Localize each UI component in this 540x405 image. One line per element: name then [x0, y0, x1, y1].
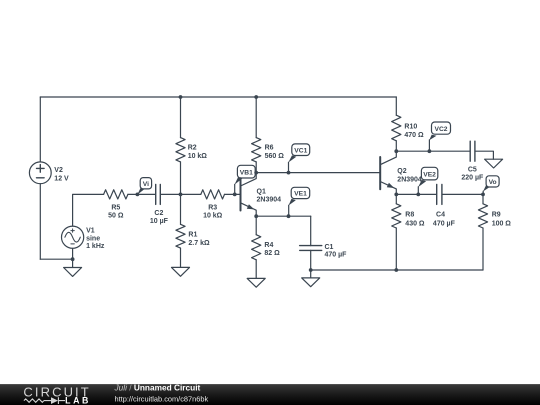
wire R8 bottom lead — [395, 228, 397, 270]
probe VE2 — [418, 167, 438, 194]
node Q2 emitter junction — [394, 193, 398, 197]
node VC2 junction — [428, 149, 432, 153]
node R2 top — [179, 95, 183, 99]
transistor Q2 — [380, 151, 396, 194]
logo resistor-diode art — [24, 397, 65, 404]
label Q1 2N3904 — [257, 189, 282, 204]
node VE1 junction — [287, 214, 291, 218]
wire C5 right to ground — [476, 151, 494, 159]
transistor Q1 — [241, 173, 257, 217]
node Q1 collector junction — [254, 171, 258, 175]
wire C1 bottom lead — [310, 250, 312, 270]
label Q2 2N3904 — [397, 168, 422, 184]
label R10 470 ohm — [404, 124, 424, 139]
wire top rail — [40, 96, 396, 98]
ground under V1 — [64, 259, 82, 276]
wire bottom rail — [311, 269, 483, 271]
node VB1 junction — [233, 193, 237, 197]
label R4 82 ohm — [264, 242, 280, 257]
node VE2 junction — [416, 193, 420, 197]
wire C2 right to junction — [161, 193, 201, 195]
wire left rail lower — [39, 184, 41, 260]
capacitor C1 — [300, 246, 322, 251]
label R1 2.7 kohm — [188, 231, 210, 247]
label R5 50 ohm — [108, 204, 124, 219]
wire V1 bottom lead — [72, 248, 74, 259]
resistor R8 — [392, 204, 401, 228]
wire R9 top lead — [482, 194, 484, 203]
capacitor C5 — [470, 141, 475, 161]
ground under R4 — [247, 260, 265, 287]
node Q2 collector junction — [394, 149, 398, 153]
capacitor C4 — [437, 184, 442, 204]
resistor R2 — [176, 138, 185, 162]
probe VB1 — [235, 165, 256, 194]
wire R10 top lead — [395, 97, 397, 115]
node R8 bottom junction — [394, 268, 398, 272]
wire R2 bottom lead — [180, 162, 182, 195]
capacitor C2 — [156, 184, 161, 204]
label V1 sine 1 kHz — [86, 228, 105, 251]
voltage source V1 sine — [62, 226, 84, 248]
label V2 12 V — [54, 167, 69, 182]
svg-text:LAB: LAB — [65, 396, 91, 405]
wire R6 bottom lead — [255, 162, 257, 173]
wire bottom left to V1 — [40, 258, 72, 260]
label R3 10 kohm — [203, 204, 223, 219]
resistor R4 — [252, 235, 261, 260]
svg-text:Juli / Unnamed Circuit: Juli / Unnamed Circuit — [114, 382, 201, 392]
wire R9 bottom lead — [482, 228, 484, 270]
ground under R1 — [172, 248, 190, 276]
ground right of C5 — [485, 159, 503, 168]
probe Vi — [137, 178, 151, 195]
wire Q1 collector row to Q2 base — [256, 172, 380, 174]
label C2 10 uF — [150, 210, 169, 225]
footer bar — [0, 384, 540, 405]
label R2 10 kohm — [188, 144, 208, 160]
wire R4 top lead — [255, 216, 257, 235]
wire C1 top lead — [310, 216, 312, 245]
voltage source V2 — [29, 162, 51, 184]
resistor R5 — [104, 190, 128, 199]
node Vi junction — [136, 193, 140, 197]
resistor R1 — [176, 224, 185, 248]
wire R2 top lead — [180, 97, 182, 138]
node main junction C2/R2/R1/R3 — [179, 193, 183, 197]
node Q1 emitter junction — [254, 214, 258, 218]
label C1 470 uF — [325, 244, 348, 259]
wire R6 top lead — [255, 97, 257, 138]
probe VE1 — [289, 187, 310, 216]
label R8 430 ohm — [405, 212, 425, 228]
label C5 220 uF — [461, 166, 484, 181]
node VC1 junction — [287, 171, 291, 175]
wire Q1 emitter row — [256, 215, 311, 217]
label C4 470 uF — [433, 211, 456, 227]
wire R8 top lead — [395, 194, 397, 203]
resistor R10 — [392, 115, 401, 141]
probe VC1 — [288, 144, 309, 173]
probe VC2 — [429, 122, 450, 151]
wire Q2 collector row to C5 — [396, 150, 469, 152]
node V1 bottom junction — [71, 257, 75, 261]
wire Q2 emitter row — [396, 193, 483, 195]
node C1 bottom junction — [309, 268, 313, 272]
wire R1 top lead — [180, 194, 182, 224]
resistor R9 — [478, 204, 487, 228]
resistor R6 — [252, 138, 261, 162]
wire R5 right to C2 — [128, 193, 155, 195]
wire V1 top lead — [73, 194, 104, 226]
wire R3 right to Q1 base — [225, 193, 241, 195]
label R6 560 ohm — [265, 145, 285, 160]
ground under C1 — [302, 270, 320, 287]
resistor R3 — [201, 190, 225, 199]
node Vo junction — [481, 193, 485, 197]
wire left rail upper — [39, 97, 41, 162]
label R9 100 ohm — [492, 212, 512, 228]
wire R10 bottom lead — [395, 141, 397, 151]
probe Vo — [483, 176, 499, 195]
node R6 top — [254, 95, 258, 99]
svg-text:http://circuitlab.com/c87n6bk: http://circuitlab.com/c87n6bk — [115, 394, 209, 403]
